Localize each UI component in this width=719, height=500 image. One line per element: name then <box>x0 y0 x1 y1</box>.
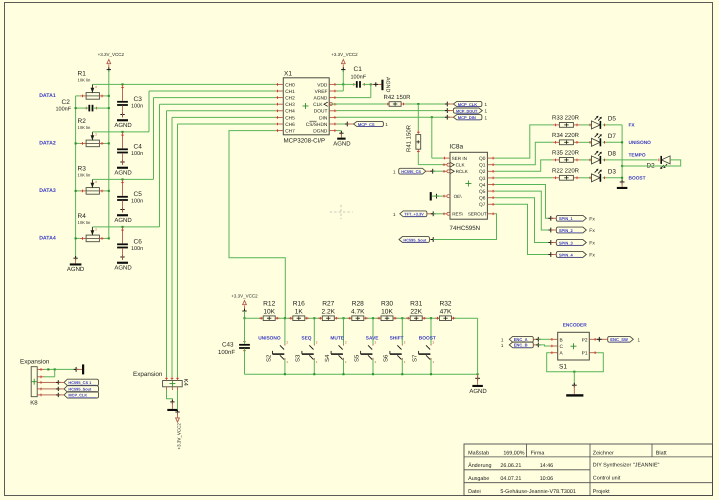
power flag +3.3V_VCC2 (K4) <box>176 412 182 450</box>
svg-text:Q5: Q5 <box>479 189 486 195</box>
svg-text:CH4: CH4 <box>285 109 295 115</box>
wire VREF to VCC <box>337 84 343 91</box>
ground AGND (ladder) <box>469 374 487 395</box>
svg-text:22K: 22K <box>410 308 422 315</box>
wire C43 bottom <box>244 349 246 375</box>
svg-text:R12: R12 <box>263 301 275 308</box>
flag ENC_SW <box>597 336 641 342</box>
label SEQ <box>301 336 311 342</box>
svg-text:DIN: DIN <box>319 115 328 121</box>
wire C1 to AGND bar <box>363 82 382 86</box>
svg-text:SHIFT: SHIFT <box>390 336 404 342</box>
capacitor C43 <box>218 341 250 355</box>
resistor R35 <box>552 150 580 163</box>
switch S5 <box>353 318 376 374</box>
svg-text:SEQ: SEQ <box>301 336 311 342</box>
svg-text:S3: S3 <box>295 354 302 362</box>
svg-text:C4: C4 <box>134 144 143 151</box>
wire R42 to MCP_CLK <box>405 102 450 107</box>
wire Q0 to LED row <box>495 125 553 158</box>
label DATA2 <box>39 141 56 147</box>
svg-text:MUTE: MUTE <box>330 336 344 342</box>
resistor R22 <box>552 167 580 180</box>
svg-text:AGND: AGND <box>314 96 328 102</box>
svg-text:Q3: Q3 <box>479 176 486 182</box>
svg-text:VDD: VDD <box>317 82 328 88</box>
svg-text:DGND: DGND <box>313 129 328 135</box>
svg-text:SPIN_3: SPIN_3 <box>559 240 574 245</box>
label MUTE <box>330 336 344 342</box>
svg-text:BOOST: BOOST <box>419 336 436 342</box>
capacitor C3 <box>117 84 143 117</box>
wire LED rail <box>621 125 623 182</box>
svg-text:ENC_SW: ENC_SW <box>610 337 628 342</box>
svg-text:C: C <box>560 344 564 350</box>
ground AGND (C5) <box>114 214 132 224</box>
svg-text:MCP_DOUT: MCP_DOUT <box>456 109 478 113</box>
svg-text:1K: 1K <box>295 308 304 315</box>
resistor R30 <box>377 301 397 321</box>
wire node CH3 riser <box>160 104 276 227</box>
svg-text:10K lin: 10K lin <box>78 125 91 130</box>
ground AGND (C6) <box>114 262 132 272</box>
svg-text:100nF: 100nF <box>351 75 367 81</box>
svg-text:AGND: AGND <box>114 169 132 176</box>
ground bar (OE) <box>430 192 439 200</box>
svg-text:Fx: Fx <box>589 216 595 222</box>
label DATA4 <box>39 236 56 242</box>
wire X1 AGND pin <box>337 84 371 97</box>
capacitor C6 <box>117 227 143 260</box>
svg-text:74HC595N: 74HC595N <box>450 225 481 232</box>
svg-text:Q1: Q1 <box>479 163 486 169</box>
svg-text:HC595_Sout: HC595_Sout <box>403 237 427 242</box>
switch S4 <box>324 318 347 374</box>
rotary encoder S1 <box>550 332 597 370</box>
wire R33 to LED <box>580 124 592 126</box>
flag HC595_Sout <box>399 237 436 243</box>
ground AGND (C4) <box>114 167 132 177</box>
svg-text:10K lin: 10K lin <box>78 220 91 225</box>
label BOOST <box>419 336 436 342</box>
label ENCODER <box>563 323 588 329</box>
wire Q6 to SPIN_3 <box>495 198 553 245</box>
connector K4 <box>133 371 189 390</box>
svg-text:D5: D5 <box>608 116 617 123</box>
flag HC595_CS <box>393 168 435 174</box>
svg-text:OE\: OE\ <box>454 194 463 199</box>
svg-text:100nF: 100nF <box>56 107 72 113</box>
svg-text:+3.3V_VCC2: +3.3V_VCC2 <box>231 293 258 298</box>
svg-text:10K: 10K <box>263 308 275 315</box>
wire CLK to R42 <box>329 103 387 106</box>
label SAVE <box>366 336 380 342</box>
svg-text:AGND: AGND <box>385 77 391 92</box>
svg-text:169,00%: 169,00% <box>503 450 524 456</box>
resistor R31 <box>406 301 426 321</box>
wire K8 pin1 to ground bar <box>44 367 82 372</box>
svg-text:CS/SHDN: CS/SHDN <box>306 122 328 128</box>
flag MCP_DIN <box>447 115 487 121</box>
svg-text:AGND: AGND <box>67 266 85 273</box>
svg-text:Änderung: Änderung <box>468 462 491 469</box>
wire R41 top <box>417 104 419 131</box>
wire Q5 to SPIN_2 <box>495 191 553 232</box>
svg-text:CH6: CH6 <box>285 122 295 128</box>
wire VDD to VCC <box>337 70 344 85</box>
svg-text:CH1: CH1 <box>285 89 295 95</box>
wire DIN net <box>337 115 450 120</box>
ground bar (K8) <box>82 364 84 374</box>
potentiometer R4 <box>78 213 105 242</box>
power flag +3.3V_VCC2 (pots) <box>98 52 125 72</box>
svg-text:Q0: Q0 <box>479 156 486 162</box>
svg-text:Fx: Fx <box>589 228 595 234</box>
svg-text:14:46: 14:46 <box>540 463 554 469</box>
svg-text:C5: C5 <box>134 191 143 198</box>
svg-text:TFT_+3.3V: TFT_+3.3V <box>404 212 424 217</box>
svg-text:AGND: AGND <box>114 122 132 129</box>
wire ladder top rail <box>245 317 478 319</box>
svg-text:Projekt: Projekt <box>593 489 610 495</box>
svg-text:IC8a: IC8a <box>449 144 463 151</box>
flag TFT_+3.3V <box>393 211 436 217</box>
svg-text:HC595_CS: HC595_CS <box>401 169 421 174</box>
wire R22 to LED <box>580 177 592 179</box>
svg-text:ENC_A: ENC_A <box>514 337 528 342</box>
wire DGND net <box>337 131 344 138</box>
wire DOUT net <box>337 108 450 113</box>
wire CH5 to K4 <box>172 117 276 377</box>
svg-text:S7: S7 <box>411 354 418 362</box>
svg-text:D3: D3 <box>608 169 617 176</box>
svg-text:Blatt: Blatt <box>656 450 667 456</box>
wire wiper R1 <box>92 83 275 85</box>
flag SPIN_2 <box>551 227 596 234</box>
svg-text:4.7K: 4.7K <box>351 308 365 315</box>
svg-text:X1: X1 <box>284 71 292 78</box>
wire ENC_B to C <box>538 345 550 346</box>
flag MCP_DOUT <box>447 108 487 114</box>
label DATA3 <box>39 188 56 194</box>
svg-text:K4: K4 <box>182 379 189 387</box>
wire VCC to C1 <box>343 83 356 85</box>
resistor R34 <box>552 132 580 145</box>
svg-text:AGND: AGND <box>114 217 132 224</box>
label UNISONO <box>258 336 281 342</box>
flag SPIN_4 <box>551 252 596 259</box>
svg-text:Ausgabe: Ausgabe <box>468 476 489 482</box>
svg-text:R28: R28 <box>352 301 364 308</box>
svg-text:Zeichner: Zeichner <box>593 450 614 456</box>
flag SPIN_3 <box>551 240 596 247</box>
resistor R42 <box>384 94 412 106</box>
resistor R16 <box>289 301 309 321</box>
ground AGND (C3) <box>114 119 132 129</box>
svg-text:2.2K: 2.2K <box>322 308 336 315</box>
wire R3 left pin to AGND rail <box>75 190 80 192</box>
svg-text:S4: S4 <box>324 354 331 362</box>
svg-text:S5: S5 <box>353 354 360 362</box>
ground AGND (C1) <box>381 77 390 92</box>
switch S2 <box>265 318 288 374</box>
wire node CH1 riser <box>149 91 276 132</box>
flag HC595_Sout (K8) <box>44 386 99 392</box>
wire A to P1 loop <box>547 353 604 373</box>
wire R3 right pin to VCC rail <box>105 190 110 192</box>
wire R2 right pin to VCC rail <box>105 142 110 144</box>
svg-text:B: B <box>560 337 563 343</box>
wire wiper R2 <box>92 131 149 133</box>
svg-text:Q6: Q6 <box>479 196 486 202</box>
svg-text:Q2: Q2 <box>479 169 486 175</box>
flag MCP_CLK (K8) <box>44 392 99 398</box>
svg-text:DATA3: DATA3 <box>39 188 56 194</box>
wire D2 loop <box>621 160 681 167</box>
resistor R12 <box>259 301 279 321</box>
svg-text:Q7: Q7 <box>479 202 486 208</box>
wire loop to ground <box>572 372 577 388</box>
wire R35 to LED <box>580 159 592 161</box>
svg-text:+3.3V_VCC2: +3.3V_VCC2 <box>176 423 181 450</box>
svg-text:MCP_DIN: MCP_DIN <box>458 115 476 120</box>
wire K4 to ground <box>167 390 175 404</box>
svg-text:D7: D7 <box>608 133 617 140</box>
svg-text:AGND: AGND <box>469 388 487 395</box>
svg-text:R33 220R: R33 220R <box>552 115 580 122</box>
svg-text:CH5: CH5 <box>285 115 295 121</box>
wire Q1 to LED row <box>495 142 553 164</box>
svg-text:Control unit: Control unit <box>593 475 621 481</box>
svg-text:DATA1: DATA1 <box>39 93 56 99</box>
wire CH7 to ladder <box>229 131 285 319</box>
svg-text:Firma: Firma <box>531 450 545 456</box>
svg-text:R31: R31 <box>410 301 422 308</box>
svg-text:CH2: CH2 <box>285 96 295 102</box>
wire R32 to AGND corner <box>477 318 479 374</box>
power flag +3.3V_VCC2 (X1) <box>331 52 358 72</box>
svg-text:100n: 100n <box>131 151 143 157</box>
svg-text:5-Gehäuse-Jeannie-V78.T3001: 5-Gehäuse-Jeannie-V78.T3001 <box>500 489 576 495</box>
svg-text:100n: 100n <box>131 104 143 110</box>
wire LED D5 to rail <box>603 124 623 127</box>
svg-text:SPIN_2: SPIN_2 <box>559 228 574 233</box>
wire wiper R3 <box>92 178 153 180</box>
resistor R28 <box>348 301 368 321</box>
svg-text:R35 220R: R35 220R <box>552 150 580 157</box>
svg-text:S6: S6 <box>383 354 390 362</box>
resistor R27 <box>318 301 338 321</box>
svg-text:10K lin: 10K lin <box>78 78 91 83</box>
flag ENC_B <box>501 342 541 348</box>
wire CH4 to K4 <box>167 111 276 378</box>
wire CH6 to K4 <box>178 124 276 377</box>
wire ENC_A to B <box>538 338 550 340</box>
svg-text:26.06.21: 26.06.21 <box>500 463 521 469</box>
svg-text:CH7: CH7 <box>285 129 295 135</box>
label BOOST <box>629 175 646 181</box>
wire wiper R4 <box>92 226 159 228</box>
svg-text:RCLK: RCLK <box>456 169 469 174</box>
svg-text:MCP_CLK: MCP_CLK <box>458 102 477 107</box>
wire LED D3 to rail <box>603 177 623 180</box>
label UNISONO <box>629 140 652 146</box>
wire OE net <box>432 195 443 197</box>
svg-text:P2: P2 <box>582 337 588 343</box>
svg-text:MCP_CLK: MCP_CLK <box>68 393 87 398</box>
svg-text:Maßstab: Maßstab <box>468 450 489 456</box>
svg-text:SER IN: SER IN <box>452 156 467 161</box>
flag HC595_CS 1 (K8) <box>44 379 99 385</box>
label DATA1 <box>39 93 56 99</box>
switch S6 <box>383 318 406 374</box>
svg-text:47K: 47K <box>440 308 452 315</box>
svg-text:D8: D8 <box>608 151 617 158</box>
wire CS net <box>337 122 350 127</box>
svg-text:SAVE: SAVE <box>366 336 380 342</box>
LED D3 <box>590 169 616 182</box>
ground (LED rail) <box>617 180 628 189</box>
wire Q4 to SPIN_1 <box>495 185 553 221</box>
title block <box>464 444 713 496</box>
svg-text:C6: C6 <box>134 239 143 246</box>
wire R4 right pin to VCC rail <box>105 237 110 239</box>
resistor R32 <box>435 301 455 321</box>
resistor R33 <box>552 115 580 128</box>
svg-text:R32: R32 <box>439 301 451 308</box>
flag MCP_CS <box>347 121 388 127</box>
wire HC595_CS to RCLK <box>433 170 443 172</box>
wire VCC to ladder <box>243 311 245 319</box>
flag MCP_CLK <box>447 101 487 107</box>
LED D2 <box>647 156 671 170</box>
svg-text:04.07.21: 04.07.21 <box>500 476 521 482</box>
svg-text:100n: 100n <box>131 246 143 252</box>
svg-text:ENC_B: ENC_B <box>514 343 528 348</box>
svg-text:AGND: AGND <box>114 264 132 271</box>
switch S3 <box>295 318 318 374</box>
svg-text:10K lin: 10K lin <box>78 173 91 178</box>
wire R41 bottom to IC8a CLK <box>418 153 443 164</box>
svg-text:P1: P1 <box>582 351 588 357</box>
capacitor C2 <box>56 99 97 113</box>
svg-text:VREF: VREF <box>315 89 328 95</box>
svg-text:HC595_Sout: HC595_Sout <box>68 387 92 392</box>
svg-text:HC595_CS 1: HC595_CS 1 <box>68 380 92 385</box>
svg-text:Expansion: Expansion <box>133 371 163 378</box>
svg-text:10K: 10K <box>381 308 393 315</box>
svg-text:MCP3208-CI/P: MCP3208-CI/P <box>284 137 326 144</box>
svg-text:C3: C3 <box>134 96 143 103</box>
potentiometer R3 <box>78 166 105 195</box>
wire K4 to VCC <box>175 390 179 414</box>
capacitor C1 <box>351 66 367 88</box>
wire R2 left pin to AGND rail <box>75 142 80 144</box>
svg-text:CLK: CLK <box>313 102 323 108</box>
switch S7 <box>411 318 434 374</box>
wire LED D7 to rail <box>603 141 623 144</box>
LED D5 <box>590 116 616 129</box>
sheet center mark <box>330 205 353 220</box>
svg-text:DIY Synthesizer "JEANNIE": DIY Synthesizer "JEANNIE" <box>593 463 660 469</box>
svg-text:S1: S1 <box>559 364 567 371</box>
svg-text:+3.3V_VCC2: +3.3V_VCC2 <box>331 52 358 57</box>
svg-text:C2: C2 <box>62 99 71 106</box>
connector K8 <box>20 358 50 406</box>
svg-text:SPIN_4: SPIN_4 <box>559 252 574 257</box>
svg-text:Fx: Fx <box>589 253 595 259</box>
wire K8 pin2 <box>44 369 55 376</box>
svg-text:ENCODER: ENCODER <box>563 323 588 329</box>
svg-text:Expansion: Expansion <box>20 358 50 365</box>
svg-text:TEMPO: TEMPO <box>629 153 646 159</box>
label TEMPO <box>629 153 646 159</box>
svg-text:+3.3V_VCC2: +3.3V_VCC2 <box>98 52 125 57</box>
svg-text:R41 150R: R41 150R <box>406 124 413 152</box>
wire C2 left <box>75 107 89 109</box>
svg-text:R30: R30 <box>381 301 393 308</box>
svg-text:Fx: Fx <box>589 241 595 247</box>
flag SPIN_1 <box>551 215 596 222</box>
wire SER OUT net <box>433 214 496 240</box>
wire R1 left pin to AGND rail <box>76 95 80 97</box>
wire MCP_DIN to SER IN <box>432 117 443 158</box>
wire TFT to RES <box>433 213 442 215</box>
svg-text:SPIN_1: SPIN_1 <box>559 216 574 221</box>
svg-text:S2: S2 <box>265 354 272 362</box>
wire R1 right pin to VCC rail <box>105 95 110 97</box>
svg-text:MCP_CS: MCP_CS <box>358 122 375 127</box>
svg-text:Q4: Q4 <box>479 182 486 188</box>
wire C2 right <box>93 107 110 109</box>
ground (encoder) <box>566 385 583 396</box>
svg-text:100n: 100n <box>131 199 143 205</box>
wire C43 top <box>244 318 246 344</box>
svg-text:CH0: CH0 <box>285 82 295 88</box>
wire R34 to LED <box>580 141 592 143</box>
IC IC8a 74HC595N <box>443 144 496 232</box>
potentiometer R2 <box>78 118 105 147</box>
svg-text:R42 150R: R42 150R <box>384 94 412 101</box>
svg-text:100nF: 100nF <box>218 349 235 356</box>
svg-text:10:06: 10:06 <box>540 476 554 482</box>
flag ENC_A <box>501 336 541 342</box>
wire R4 left pin to AGND rail <box>75 237 80 239</box>
svg-text:DATA2: DATA2 <box>39 141 56 147</box>
svg-text:DATA4: DATA4 <box>39 236 56 242</box>
IC X1 MCP3208-CI/P <box>276 71 337 145</box>
svg-text:UNISONO: UNISONO <box>258 336 281 342</box>
svg-text:R22 220R: R22 220R <box>552 167 580 174</box>
svg-text:CH3: CH3 <box>285 102 295 108</box>
svg-text:R16: R16 <box>293 301 305 308</box>
svg-text:AGND: AGND <box>333 140 351 147</box>
resistor R41 <box>406 124 421 153</box>
potentiometer R1 <box>78 71 105 100</box>
svg-text:C43: C43 <box>222 341 234 348</box>
wire Q3 to LED row <box>495 177 553 179</box>
svg-text:DOUT: DOUT <box>314 109 328 115</box>
wire VCC rail (pots) <box>108 70 110 239</box>
label SHIFT <box>390 336 404 342</box>
svg-text:R34 220R: R34 220R <box>552 132 580 139</box>
svg-text:K8: K8 <box>30 399 38 406</box>
svg-text:C1: C1 <box>354 66 363 73</box>
svg-text:CLK: CLK <box>456 163 466 168</box>
svg-text:R27: R27 <box>322 301 334 308</box>
ground AGND (pot rail) <box>67 256 85 273</box>
svg-text:FX: FX <box>629 123 636 129</box>
